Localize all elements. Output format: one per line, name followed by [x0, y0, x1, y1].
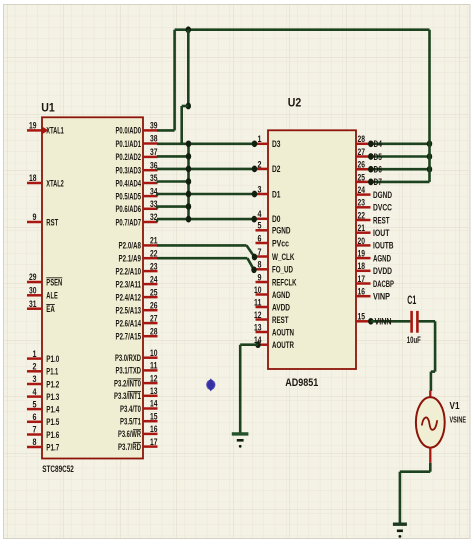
svg-text:19: 19 [29, 121, 37, 131]
svg-text:P2.0/A8: P2.0/A8 [119, 241, 142, 251]
U1 pin 27 P2.6/A14 [143, 322, 158, 325]
U1 pin 25 P2.4/A12 [143, 296, 158, 299]
svg-text:P0.5/AD5: P0.5/AD5 [116, 191, 142, 201]
svg-text:P1.3: P1.3 [46, 392, 59, 402]
svg-text:11: 11 [150, 361, 158, 371]
svg-text:25: 25 [358, 172, 366, 182]
svg-text:PGND: PGND [272, 226, 291, 236]
U1 pin 16 P3.6/WR [143, 433, 158, 436]
svg-text:P2.1/A9: P2.1/A9 [119, 254, 142, 264]
svg-text:P0.3/AD3: P0.3/AD3 [116, 166, 142, 176]
U1 pin 33 P0.6/AD6 [143, 208, 158, 211]
wire P2.0 to W_CLK [157, 244, 247, 247]
svg-text:4: 4 [258, 209, 262, 219]
junction top [186, 26, 191, 33]
U2 pin 11 AVDD [256, 306, 269, 309]
svg-text:DVCC: DVCC [373, 203, 392, 213]
svg-text:C1: C1 [407, 295, 416, 307]
svg-text:D7: D7 [374, 177, 383, 187]
U1 pin 28 P2.7/A15 [143, 335, 158, 338]
svg-text:11: 11 [254, 297, 262, 307]
junction bus 4 [186, 191, 191, 198]
U2 pin 2 D2 [256, 168, 269, 171]
svg-text:26: 26 [150, 300, 158, 310]
source V1 VSINE [429, 391, 431, 399]
wire V1 to ground [429, 463, 432, 472]
U2 pin 26 D6 [356, 168, 371, 171]
U2 pin 3 D1 [256, 193, 269, 196]
svg-text:P2.2/A10: P2.2/A10 [116, 266, 142, 276]
junction bus 1 [186, 153, 191, 160]
svg-text:26: 26 [358, 160, 366, 170]
svg-text:IOUTB: IOUTB [373, 241, 394, 251]
svg-text:10: 10 [254, 285, 262, 295]
svg-text:P3.1/TXD: P3.1/TXD [116, 366, 142, 376]
svg-text:2: 2 [33, 362, 37, 372]
wire P0.0 to top [157, 129, 175, 132]
svg-text:P3.7/RD: P3.7/RD [118, 442, 141, 452]
U2 pin 14 AOUTR [256, 343, 269, 346]
junction D2 pin [252, 166, 257, 173]
svg-text:P1.1: P1.1 [46, 367, 58, 377]
svg-text:P2.6/A14: P2.6/A14 [116, 318, 142, 328]
U1 pin 38 P0.1/AD1 [143, 142, 158, 145]
junction D1 pin [252, 191, 257, 198]
U1 pin 39 P0.0/AD0 [143, 129, 158, 132]
svg-text:DVDD: DVDD [373, 266, 392, 276]
U1 pin 4 P1.3 [27, 395, 42, 398]
svg-text:REFCLK: REFCLK [272, 277, 297, 287]
svg-text:5: 5 [33, 399, 37, 409]
U2 pin 27 D5 [356, 155, 371, 158]
svg-text:39: 39 [150, 121, 158, 131]
svg-text:AVDD: AVDD [272, 302, 290, 312]
U1 pin 21 P2.0/A8 [143, 244, 158, 247]
svg-text:25: 25 [150, 287, 158, 297]
svg-text:17: 17 [150, 437, 158, 447]
svg-text:U2: U2 [288, 98, 302, 110]
wire D7 row [371, 181, 430, 184]
svg-text:VINP: VINP [373, 292, 390, 302]
svg-text:24: 24 [150, 274, 158, 284]
wire P0.1/D3 row [157, 143, 255, 146]
svg-text:21: 21 [150, 236, 158, 246]
wire top to jog [187, 30, 190, 106]
wire P0.4 row [157, 180, 190, 183]
svg-text:EA: EA [46, 304, 55, 314]
svg-text:D1: D1 [272, 189, 281, 199]
svg-text:PVcc: PVcc [272, 238, 289, 248]
svg-text:P0.0/AD0: P0.0/AD0 [116, 126, 142, 136]
junction jog [186, 103, 191, 110]
junction bus 5 [186, 203, 191, 210]
svg-text:AGND: AGND [272, 290, 290, 300]
junction bus 3 [186, 178, 191, 185]
svg-text:P0.4/AD4: P0.4/AD4 [116, 178, 142, 188]
U1 pin 14 P3.4/T0 [143, 407, 158, 410]
svg-text:12: 12 [150, 373, 158, 383]
svg-text:P3.4/T0: P3.4/T0 [120, 404, 141, 414]
U1 pin 29 PSEN [27, 281, 42, 284]
mcu U1 STC89C52 body [42, 117, 143, 458]
svg-text:RST: RST [46, 217, 58, 227]
wire P0.3/D2 row [157, 168, 255, 171]
U2 pin 6 PVcc [256, 242, 269, 245]
svg-text:8: 8 [258, 260, 262, 270]
svg-text:VINN: VINN [375, 317, 392, 327]
svg-text:9: 9 [258, 272, 262, 282]
svg-text:P3.0/RXD: P3.0/RXD [115, 353, 141, 363]
U1 pin 30 ALE [27, 294, 42, 297]
wire P2.1 to FO_UD [157, 257, 247, 260]
svg-text:28: 28 [150, 326, 158, 336]
U2 pin 16 VINP [356, 295, 371, 298]
U2 pin 1 D3 [256, 143, 269, 146]
svg-text:P2.4/A12: P2.4/A12 [116, 292, 142, 302]
wire D6 row [371, 168, 430, 171]
svg-text:D3: D3 [272, 139, 281, 149]
svg-text:2: 2 [258, 159, 262, 169]
U2 pin 23 DVCC [356, 206, 371, 209]
U1 pin 24 P2.3/A11 [143, 283, 158, 286]
U1 pin 17 P3.7/RD [143, 445, 158, 448]
U2 pin 17 DACBP [356, 282, 371, 285]
svg-text:P0.6/AD6: P0.6/AD6 [116, 204, 142, 214]
svg-text:D5: D5 [374, 152, 383, 162]
svg-text:17: 17 [358, 274, 366, 284]
dds U2 AD9851 body [268, 130, 356, 369]
svg-text:22: 22 [150, 248, 158, 258]
wire P0.7/D0 row [157, 218, 254, 221]
svg-text:6: 6 [258, 233, 262, 243]
svg-text:12: 12 [254, 310, 262, 320]
svg-text:13: 13 [150, 386, 158, 396]
svg-text:13: 13 [254, 322, 262, 332]
svg-text:29: 29 [29, 272, 37, 282]
U1 pin 12 P3.2/INT0 [143, 382, 158, 385]
wire P0.6 row [157, 205, 190, 208]
svg-text:W_CLK: W_CLK [272, 252, 295, 262]
U1 pin 13 P3.3/INT1 [143, 395, 158, 398]
svg-text:1: 1 [258, 134, 262, 144]
U2 pin 25 D7 [356, 181, 371, 184]
svg-text:15: 15 [358, 312, 366, 322]
U1 pin 5 P1.4 [27, 408, 42, 411]
U1 pin 15 P3.5/T1 [143, 420, 158, 423]
svg-text:30: 30 [29, 286, 37, 296]
U1 pin 32 P0.7/AD7 [143, 221, 158, 224]
U2 pin 4 D0 [256, 218, 269, 221]
U1 pin 11 P3.1/TXD [143, 369, 158, 372]
svg-text:XTAL2: XTAL2 [46, 178, 64, 188]
U2 pin 18 DVDD [356, 270, 371, 273]
svg-text:P1.6: P1.6 [46, 430, 59, 440]
ground left [232, 432, 249, 435]
svg-text:18: 18 [29, 173, 37, 183]
wire AOUTR [255, 341, 260, 348]
wire P0.5/D1 row [157, 193, 255, 196]
svg-text:ALE: ALE [46, 291, 58, 301]
svg-text:3: 3 [258, 184, 262, 194]
svg-text:10uF: 10uF [407, 335, 421, 345]
junction bus 2 [186, 166, 191, 173]
svg-text:8: 8 [33, 437, 37, 447]
svg-text:DACBP: DACBP [373, 279, 394, 289]
svg-text:18: 18 [358, 261, 366, 271]
svg-text:9: 9 [33, 212, 37, 222]
U2 pin 5 PGND [256, 229, 269, 232]
U2 pin 28 D4 [356, 143, 371, 146]
U2 pin 8 FO_UD [256, 268, 269, 271]
svg-text:XTAL1: XTAL1 [46, 126, 64, 136]
svg-text:P1.5: P1.5 [46, 417, 59, 427]
svg-text:14: 14 [150, 399, 158, 409]
svg-text:5: 5 [258, 221, 262, 231]
svg-text:D2: D2 [272, 164, 281, 174]
XTAL1 clock arrow [43, 127, 49, 134]
svg-text:1: 1 [33, 349, 37, 359]
svg-text:P0.1/AD1: P0.1/AD1 [116, 139, 142, 149]
svg-text:P2.7/A15: P2.7/A15 [116, 332, 142, 342]
svg-text:P3.2/INT0: P3.2/INT0 [114, 378, 141, 388]
U2 pin 21 IOUT [356, 231, 371, 234]
svg-text:IOUT: IOUT [373, 228, 390, 238]
U1 pin 18 XTAL2 [27, 182, 42, 185]
svg-text:16: 16 [358, 287, 366, 297]
U1 pin 3 P1.2 [27, 383, 42, 386]
U1 pin 34 P0.5/AD5 [143, 195, 158, 198]
svg-text:U1: U1 [41, 103, 55, 115]
U2 pin 22 REST [356, 219, 371, 222]
wire C1 to V1 [419, 320, 436, 323]
svg-text:AOUTR: AOUTR [272, 340, 294, 350]
svg-text:P1.0: P1.0 [46, 354, 59, 364]
U1 pin 35 P0.4/AD4 [143, 182, 158, 185]
junction D0 pin [251, 216, 256, 223]
svg-text:P0.7/AD7: P0.7/AD7 [116, 217, 142, 227]
svg-text:VSINE: VSINE [450, 415, 467, 425]
U2 pin 12 REST [256, 318, 269, 321]
svg-text:10: 10 [150, 348, 158, 358]
U2 pin 7 W_CLK [256, 255, 269, 258]
svg-text:P3.6/WR: P3.6/WR [118, 429, 141, 439]
U1 pin 8 P1.7 [27, 446, 42, 449]
U2 pin 15 VINN [356, 320, 371, 323]
wire D4 row [371, 143, 430, 146]
origin marker [207, 378, 215, 391]
svg-text:20: 20 [358, 236, 366, 246]
U2 pin 9 REFCLK [256, 281, 269, 284]
svg-text:FO_UD: FO_UD [272, 265, 293, 275]
wire top horizontal [175, 28, 430, 31]
svg-text:P2.3/A11: P2.3/A11 [116, 279, 142, 289]
svg-text:P1.7: P1.7 [46, 442, 59, 452]
svg-text:D4: D4 [374, 139, 383, 149]
junction bus 6 [186, 216, 191, 223]
wire P0.2 row [157, 155, 190, 158]
svg-text:27: 27 [150, 313, 158, 323]
svg-text:AGND: AGND [373, 253, 391, 263]
svg-text:P1.2: P1.2 [46, 379, 59, 389]
svg-text:22: 22 [358, 210, 366, 220]
svg-text:19: 19 [358, 249, 366, 259]
junction D3 pin [252, 140, 257, 147]
U2 pin 19 AGND [356, 257, 371, 260]
svg-text:23: 23 [150, 261, 158, 271]
svg-text:21: 21 [358, 223, 366, 233]
wire right vertical [428, 30, 431, 182]
U1 pin 22 P2.1/A9 [143, 257, 158, 260]
svg-text:15: 15 [150, 411, 158, 421]
wire VINN to C1 [368, 318, 373, 325]
ground right [393, 523, 407, 526]
U2 pin 20 IOUTB [356, 244, 371, 247]
svg-text:P3.5/T1: P3.5/T1 [120, 417, 141, 427]
svg-text:24: 24 [358, 185, 366, 195]
U1 pin 36 P0.3/AD3 [143, 169, 158, 172]
junction bus 0 [186, 140, 191, 147]
svg-text:28: 28 [358, 134, 366, 144]
U1 pin 9 RST [27, 221, 42, 224]
U1 pin 26 P2.5/A13 [143, 309, 158, 312]
svg-text:V1: V1 [450, 401, 460, 412]
svg-text:P0.2/AD2: P0.2/AD2 [116, 152, 142, 162]
svg-text:6: 6 [33, 412, 37, 422]
svg-text:16: 16 [150, 424, 158, 434]
wire D5 row [371, 155, 430, 158]
svg-text:4: 4 [33, 387, 37, 397]
U1 pin 23 P2.2/A10 [143, 270, 158, 273]
U1 pin 2 P1.1 [27, 370, 42, 373]
svg-text:38: 38 [150, 134, 158, 144]
svg-text:P1.4: P1.4 [46, 404, 60, 414]
U1 pin 19 XTAL1 [27, 129, 42, 132]
svg-text:D0: D0 [272, 214, 281, 224]
svg-text:P3.3/INT1: P3.3/INT1 [114, 391, 141, 401]
capacitor C1 [410, 311, 413, 333]
U1 pin 10 P3.0/RXD [143, 356, 158, 359]
vertical bus [187, 144, 190, 219]
U1 pin 31 EA [27, 307, 42, 310]
svg-text:REST: REST [272, 315, 289, 325]
U2 pin 24 DGND [356, 193, 371, 196]
svg-text:37: 37 [150, 147, 158, 157]
svg-text:D6: D6 [374, 165, 383, 175]
U2 pin 13 AOUTN [256, 331, 269, 334]
svg-text:DGND: DGND [373, 190, 392, 200]
wire jog [182, 105, 189, 108]
svg-text:STC89C52: STC89C52 [42, 464, 74, 474]
U1 pin 1 P1.0 [27, 357, 42, 360]
U1 pin 6 P1.5 [27, 421, 42, 424]
svg-text:27: 27 [358, 147, 366, 157]
U1 pin 7 P1.6 [27, 433, 42, 436]
svg-text:AD9851: AD9851 [285, 377, 318, 389]
svg-text:7: 7 [258, 247, 262, 257]
svg-text:P2.5/A13: P2.5/A13 [116, 306, 142, 316]
svg-text:3: 3 [33, 374, 37, 384]
svg-text:23: 23 [358, 198, 366, 208]
U1 pin 37 P0.2/AD2 [143, 156, 158, 159]
svg-text:31: 31 [29, 299, 37, 309]
svg-text:REST: REST [373, 215, 390, 225]
svg-text:7: 7 [33, 425, 37, 435]
svg-text:AOUTN: AOUTN [272, 327, 294, 337]
U2 pin 10 AGND [256, 293, 269, 296]
svg-text:PSEN: PSEN [46, 277, 62, 287]
